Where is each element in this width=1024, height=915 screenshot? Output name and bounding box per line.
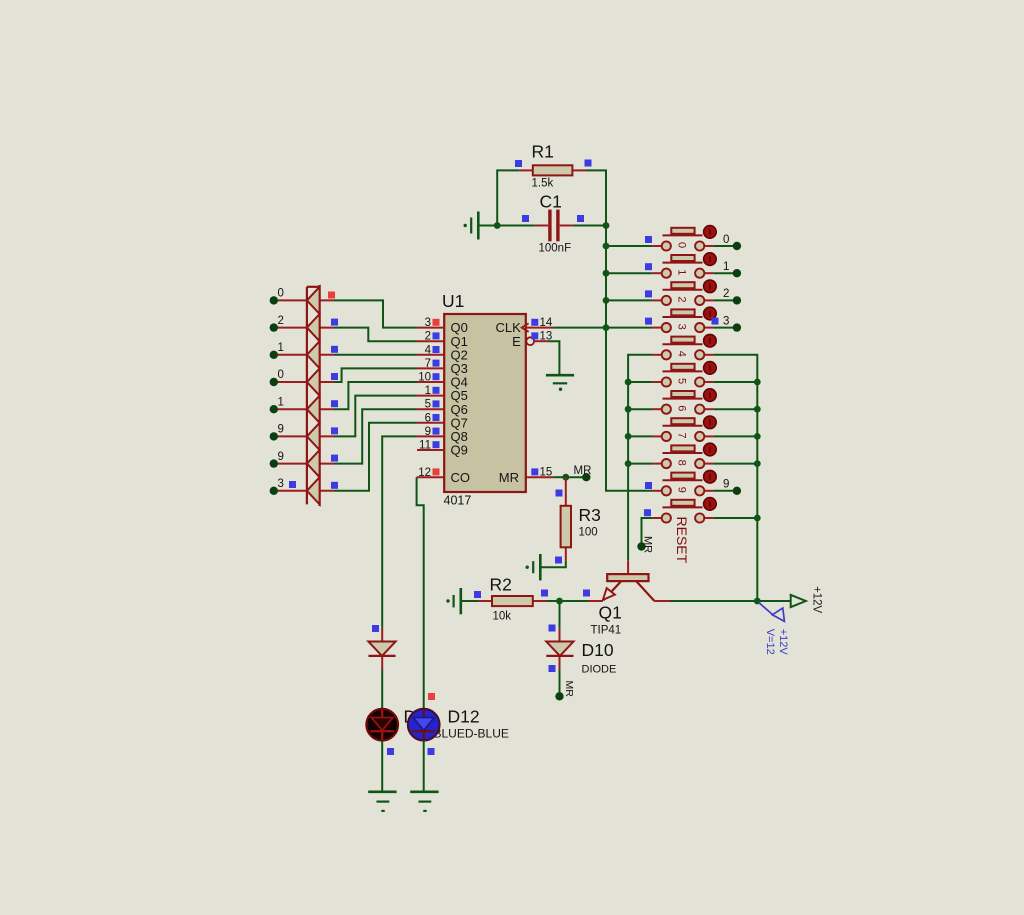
- pin 7 (Q3) stub: [417, 367, 444, 369]
- ladder diode 3: [307, 341, 320, 368]
- svg-text:R1: R1: [532, 142, 554, 162]
- junction bus2 row 6: [625, 406, 632, 413]
- svg-text:0: 0: [278, 288, 284, 300]
- svg-text:Q9: Q9: [451, 443, 468, 458]
- marker: [555, 557, 562, 564]
- marker: [522, 215, 529, 222]
- wire D10 to MR: [559, 670, 561, 697]
- marker: [549, 665, 556, 672]
- marker: [585, 160, 592, 167]
- wire C1 to bus: [573, 225, 606, 227]
- svg-text:1: 1: [425, 385, 431, 397]
- svg-text:5: 5: [675, 378, 687, 384]
- pin 15 (MR) stub: [526, 476, 553, 478]
- svg-text:1: 1: [675, 269, 687, 275]
- wire RESET to MR: [642, 518, 653, 543]
- button 8: [653, 463, 662, 465]
- wire terminal 0 row 0: [277, 299, 334, 301]
- pin 6 (Q7) stub: [417, 422, 444, 424]
- svg-text:RESET: RESET: [674, 517, 690, 564]
- marker: [645, 482, 652, 489]
- wire RESET to right bus: [714, 517, 757, 519]
- wire R2 to node B: [546, 600, 559, 602]
- button 7: [653, 435, 662, 437]
- wire node to +12V arrow: [757, 600, 790, 602]
- svg-text:100: 100: [579, 527, 598, 539]
- pin 3 (Q0) stub: [417, 327, 444, 329]
- wire bus2 to button 7: [628, 435, 653, 437]
- resistor R2: [478, 600, 492, 602]
- marker: [433, 400, 440, 407]
- svg-text:E: E: [512, 334, 521, 349]
- marker: [556, 490, 563, 497]
- marker: [387, 748, 394, 755]
- wire 0 to Q3: [334, 368, 417, 382]
- svg-text:U1: U1: [442, 291, 464, 311]
- wire diode to LED D11: [381, 670, 383, 709]
- resistor R1: [519, 169, 533, 171]
- svg-text:CO: CO: [451, 470, 471, 485]
- wire terminal 3 row 7: [277, 490, 334, 492]
- wire bus2 to button 8: [628, 463, 653, 465]
- svg-text:1: 1: [278, 396, 284, 408]
- marker: [433, 373, 440, 380]
- svg-text:12: 12: [418, 467, 431, 479]
- marker: [645, 263, 652, 270]
- svg-text:TIP41: TIP41: [591, 625, 622, 637]
- wire 9 to Q6: [334, 409, 417, 463]
- ladder diode 2: [307, 314, 320, 341]
- diode D10: [559, 628, 561, 642]
- terminal 0: [270, 296, 278, 304]
- terminal 3: [270, 487, 278, 495]
- button 1: [653, 272, 662, 274]
- ground (R2): [459, 588, 462, 614]
- svg-text:0: 0: [675, 242, 687, 248]
- svg-text:R2: R2: [490, 575, 512, 595]
- svg-text:0: 0: [278, 369, 284, 381]
- ladder diode 5: [307, 396, 320, 423]
- svg-text:V=12: V=12: [764, 629, 776, 655]
- wire terminal 2 row 1: [277, 327, 334, 329]
- button 5: [653, 381, 662, 383]
- marker: [644, 509, 651, 516]
- marker: [433, 414, 440, 421]
- wire terminal 0 row 3: [277, 381, 334, 383]
- marker: [433, 441, 440, 448]
- marker: [583, 590, 590, 597]
- marker: [331, 427, 338, 434]
- svg-text:9: 9: [278, 424, 284, 436]
- svg-text:1.5k: 1.5k: [532, 178, 554, 190]
- marker: [531, 468, 538, 475]
- transistor Q1: [627, 560, 629, 574]
- marker: [645, 318, 652, 325]
- marker: [433, 332, 440, 339]
- terminal 9 (right): [733, 487, 741, 495]
- button 0: [653, 245, 662, 247]
- button 4: [653, 354, 662, 356]
- wire button 1 to terminal: [714, 272, 737, 274]
- junction bus row 3: [603, 324, 610, 331]
- terminal 0 (right): [733, 242, 741, 250]
- wire 9 to Q5: [334, 396, 417, 437]
- marker: [433, 346, 440, 353]
- wire ground to R2: [461, 600, 479, 602]
- marker: [433, 360, 440, 367]
- pin 9 (Q8) stub: [417, 435, 444, 437]
- pin 2 (Q1) stub: [417, 340, 444, 342]
- node +12V junction: [754, 598, 761, 605]
- voltage probe: [759, 602, 773, 614]
- svg-text:MR: MR: [574, 465, 592, 477]
- svg-text:DIODE: DIODE: [582, 664, 617, 676]
- marker: [645, 290, 652, 297]
- terminal 9: [270, 432, 278, 440]
- node A junction: [494, 222, 501, 229]
- svg-text:MR: MR: [499, 470, 519, 485]
- marker: [433, 428, 440, 435]
- terminal 0: [270, 378, 278, 386]
- svg-text:C1: C1: [540, 192, 562, 212]
- marker: [331, 482, 338, 489]
- wire left bus buttons 4-8: [628, 355, 653, 561]
- wire button 9 to terminal: [714, 490, 737, 492]
- pin 11 (Q9) stub: [417, 449, 444, 451]
- marker: [549, 625, 556, 632]
- svg-text:7: 7: [425, 358, 431, 370]
- svg-text:2: 2: [278, 315, 284, 327]
- button 6: [653, 408, 662, 410]
- svg-text:1: 1: [723, 261, 729, 273]
- svg-text:9: 9: [278, 451, 284, 463]
- marker: [531, 319, 538, 326]
- terminal 1: [270, 351, 278, 359]
- marker: [474, 591, 481, 598]
- marker: [331, 373, 338, 380]
- marker: [428, 693, 435, 700]
- junction bus row 0: [603, 243, 610, 250]
- marker: [331, 346, 338, 353]
- wire bus2 to button 9: [628, 490, 653, 492]
- wire LED D12 to ground: [423, 741, 425, 792]
- wire button 8 to right bus: [714, 463, 757, 465]
- marker: [577, 215, 584, 222]
- marker: [541, 590, 548, 597]
- wire MR pin to junction: [553, 476, 566, 478]
- node B junction: [556, 598, 563, 605]
- svg-text:9: 9: [425, 426, 431, 438]
- wire 3 to Q7: [334, 423, 417, 491]
- pin 14 (CLK) stub: [526, 327, 553, 329]
- pin 4 (Q2) stub: [417, 354, 444, 356]
- marker: [433, 319, 440, 326]
- ladder diode 4: [307, 368, 320, 395]
- wire bus to button 0: [606, 245, 653, 247]
- pin 5 (Q6) stub: [417, 408, 444, 410]
- button 3: [653, 327, 662, 329]
- svg-text:R3: R3: [579, 505, 601, 525]
- junction bus3 row 8: [754, 460, 761, 467]
- svg-text:2: 2: [675, 296, 687, 302]
- wire 2 to Q1: [334, 328, 417, 342]
- diode ladder top edge: [307, 286, 320, 288]
- wire node B to D10: [559, 601, 561, 628]
- svg-text:3: 3: [425, 317, 431, 329]
- pin 12 (CO) stub: [417, 476, 445, 478]
- svg-text:8: 8: [675, 460, 687, 466]
- svg-text:2: 2: [723, 288, 729, 300]
- svg-text:15: 15: [540, 467, 553, 479]
- wire bus to button 2: [606, 299, 653, 301]
- wire CO to LED D12: [417, 477, 424, 709]
- svg-text:3: 3: [723, 315, 729, 327]
- pin 13 (E) bubble: [526, 337, 534, 345]
- svg-text:11: 11: [419, 440, 431, 452]
- svg-text:1: 1: [278, 342, 284, 354]
- wire terminal 1 row 4: [277, 408, 334, 410]
- wire button 5 to right bus: [714, 381, 757, 383]
- wire right bus buttons 4-8: [714, 355, 757, 601]
- marker: [331, 319, 338, 326]
- marker: [433, 468, 440, 475]
- wire 1 to Q2: [334, 354, 417, 356]
- wire CLK pin14 to bus: [553, 327, 606, 329]
- svg-text:9: 9: [675, 487, 687, 493]
- button 2: [653, 299, 662, 301]
- ground (left of C1): [478, 225, 497, 227]
- wire collector to +12V node: [670, 600, 757, 602]
- pin 10 (Q4) stub: [417, 381, 444, 383]
- svg-text:MR: MR: [563, 681, 575, 698]
- wire terminal 9 row 6: [277, 463, 334, 465]
- resistor R3: [565, 477, 567, 506]
- ladder diode 1: [307, 287, 320, 314]
- wire button 6 to right bus: [714, 408, 757, 410]
- svg-text:10: 10: [418, 372, 431, 384]
- button 9: [653, 490, 662, 492]
- marker: [328, 292, 335, 299]
- marker: [372, 625, 379, 632]
- wire 1 to Q4: [334, 382, 417, 409]
- ground (D12): [410, 790, 438, 793]
- terminal 1 (right): [733, 269, 741, 277]
- terminal 2: [270, 323, 278, 331]
- svg-text:4: 4: [675, 351, 687, 357]
- svg-text:9: 9: [723, 479, 729, 491]
- capacitor C1: [535, 225, 548, 227]
- wire button 0 to terminal: [714, 245, 737, 247]
- svg-text:2: 2: [425, 331, 431, 343]
- terminal MR (D10): [555, 692, 563, 700]
- wire R1 left to node A: [497, 170, 519, 225]
- marker: [645, 236, 652, 243]
- wire junction to MR terminal: [566, 476, 587, 478]
- svg-text:5: 5: [425, 399, 431, 411]
- pin 1 (Q5) stub: [417, 395, 444, 397]
- terminal 1: [270, 405, 278, 413]
- IC U1 body: [444, 314, 526, 492]
- diode ladder left rail: [306, 287, 308, 505]
- junction R3 top: [562, 474, 569, 481]
- junction bus3 row 7: [754, 433, 761, 440]
- terminal 3 (right): [733, 323, 741, 331]
- svg-text:3: 3: [675, 324, 687, 330]
- svg-text:D12: D12: [448, 707, 480, 727]
- marker: [712, 318, 719, 325]
- junction bus3 row 5: [754, 379, 761, 386]
- marker: [515, 160, 522, 167]
- ladder diode 7: [307, 450, 320, 477]
- power +12V: [791, 595, 806, 607]
- wire bus down to CLK row: [605, 226, 607, 328]
- ground (R3): [539, 554, 542, 580]
- wire bus CLK row down to row 9: [606, 328, 628, 491]
- svg-text:4017: 4017: [444, 494, 472, 508]
- junction bus3 RESET row: [754, 515, 761, 522]
- ladder diode 8: [307, 477, 320, 504]
- svg-text:4: 4: [425, 344, 432, 356]
- junction bus2 row 5: [625, 379, 632, 386]
- LED D12: [408, 709, 440, 741]
- marker: [289, 481, 296, 488]
- marker: [531, 332, 538, 339]
- wire node A to C1: [497, 225, 535, 227]
- wire node B to emitter: [560, 600, 589, 602]
- svg-text:Q1: Q1: [599, 603, 622, 623]
- junction bus2 row 7: [625, 433, 632, 440]
- clock input mark: [522, 323, 529, 331]
- svg-text:14: 14: [540, 317, 553, 329]
- diode ladder right rail: [319, 285, 321, 506]
- ground (D11): [368, 790, 396, 793]
- wire bus to button 1: [606, 272, 653, 274]
- ground (E pin): [546, 374, 574, 377]
- ladder diode 6: [307, 423, 320, 450]
- wire button 3 to terminal: [714, 327, 737, 329]
- LED D11: [366, 709, 398, 741]
- junction bus/C1: [603, 222, 610, 229]
- svg-text:+12V: +12V: [777, 629, 789, 656]
- wire R1 right to bus: [586, 170, 606, 225]
- wire button 7 to right bus: [714, 435, 757, 437]
- svg-text:MR: MR: [642, 536, 654, 553]
- terminal MR: [582, 473, 590, 481]
- terminal 9: [270, 459, 278, 467]
- svg-text:100nF: 100nF: [539, 243, 572, 255]
- wire terminal 1 row 2: [277, 354, 334, 356]
- terminal 2 (right): [733, 296, 741, 304]
- wire button 2 to terminal: [714, 299, 737, 301]
- wire LED D11 to ground: [381, 741, 383, 792]
- marker: [433, 387, 440, 394]
- wire terminal 9 row 5: [277, 435, 334, 437]
- svg-text:BLUED-BLUE: BLUED-BLUE: [434, 727, 509, 741]
- svg-text:6: 6: [425, 412, 431, 424]
- svg-text:10k: 10k: [493, 611, 512, 623]
- wire 0 to Q0: [334, 300, 417, 327]
- wire bus to button 3: [606, 327, 653, 329]
- junction bus3 row 6: [754, 406, 761, 413]
- terminal MR (reset): [637, 542, 645, 550]
- button RESET: [653, 517, 662, 519]
- wire R3 to ground: [541, 561, 566, 567]
- diode (above D11): [381, 628, 383, 642]
- wire bus2 to button 5: [628, 381, 653, 383]
- svg-text:D10: D10: [582, 640, 614, 660]
- wire Q8 to diode D11: [382, 436, 417, 628]
- junction bus2 row 8: [625, 460, 632, 467]
- svg-text:7: 7: [675, 432, 687, 438]
- junction bus row 1: [603, 270, 610, 277]
- wire bus2 to button 6: [628, 408, 653, 410]
- svg-text:0: 0: [723, 234, 729, 246]
- marker: [331, 455, 338, 462]
- marker: [331, 400, 338, 407]
- svg-text:+12V: +12V: [811, 586, 823, 614]
- svg-text:3: 3: [278, 478, 284, 490]
- junction bus row 2: [603, 297, 610, 304]
- marker: [428, 748, 435, 755]
- svg-text:6: 6: [675, 405, 687, 411]
- wire E to ground: [548, 341, 559, 374]
